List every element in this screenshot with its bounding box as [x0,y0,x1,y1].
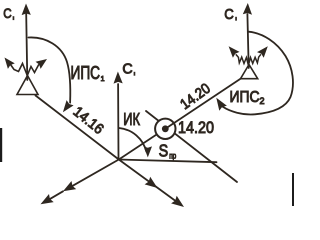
svg-text:S: S [159,141,169,161]
svg-text:С: С [122,60,132,77]
svg-text:ИК: ИК [123,109,140,129]
svg-text:ИПС: ИПС [71,63,101,83]
svg-text:14.20: 14.20 [178,119,214,137]
svg-text:14.16: 14.16 [70,104,106,138]
svg-text:2: 2 [260,96,265,106]
svg-text:пр: пр [169,151,176,160]
svg-text:1: 1 [101,76,105,83]
svg-text:С: С [224,6,234,23]
svg-text:С: С [3,5,11,21]
svg-text:ИПС: ИПС [230,89,260,106]
